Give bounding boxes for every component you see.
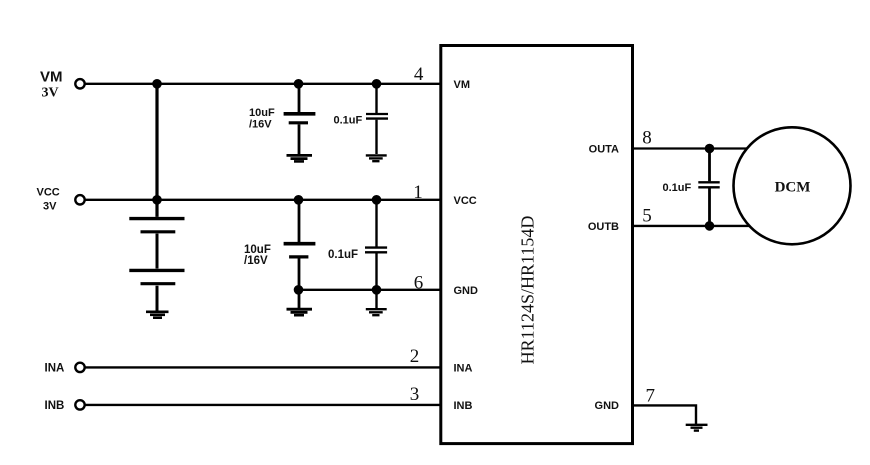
svg-text:GND: GND bbox=[595, 400, 620, 412]
svg-text:6: 6 bbox=[414, 273, 424, 294]
svg-text:VCC: VCC bbox=[37, 187, 60, 199]
svg-text:8: 8 bbox=[642, 127, 652, 148]
svg-text:VM: VM bbox=[454, 79, 471, 91]
svg-text:DCM: DCM bbox=[775, 179, 811, 195]
svg-text:INA: INA bbox=[45, 362, 65, 374]
svg-text:0.1uF: 0.1uF bbox=[663, 182, 692, 194]
svg-text:3V: 3V bbox=[42, 86, 59, 101]
svg-text:INB: INB bbox=[45, 400, 65, 412]
svg-text:0.1uF: 0.1uF bbox=[328, 249, 358, 261]
svg-text:0.1uF: 0.1uF bbox=[334, 115, 363, 127]
svg-text:4: 4 bbox=[414, 64, 424, 85]
svg-text:10uF: 10uF bbox=[249, 107, 275, 119]
svg-text:2: 2 bbox=[410, 346, 420, 367]
svg-text:VM: VM bbox=[40, 69, 63, 86]
svg-text:/16V: /16V bbox=[249, 119, 272, 131]
svg-text:INB: INB bbox=[454, 400, 473, 412]
svg-text:GND: GND bbox=[454, 285, 479, 297]
svg-text:5: 5 bbox=[642, 205, 652, 226]
svg-text:7: 7 bbox=[645, 385, 655, 406]
svg-text:OUTB: OUTB bbox=[588, 221, 619, 233]
svg-text:OUTA: OUTA bbox=[589, 144, 619, 156]
svg-text:1: 1 bbox=[413, 182, 423, 203]
svg-text:VCC: VCC bbox=[454, 195, 477, 207]
svg-text:/16V: /16V bbox=[244, 255, 268, 267]
svg-text:HR1124S/HR1154D: HR1124S/HR1154D bbox=[518, 216, 538, 365]
svg-text:3V: 3V bbox=[43, 201, 57, 213]
svg-text:3: 3 bbox=[410, 384, 420, 405]
svg-text:INA: INA bbox=[454, 362, 473, 374]
